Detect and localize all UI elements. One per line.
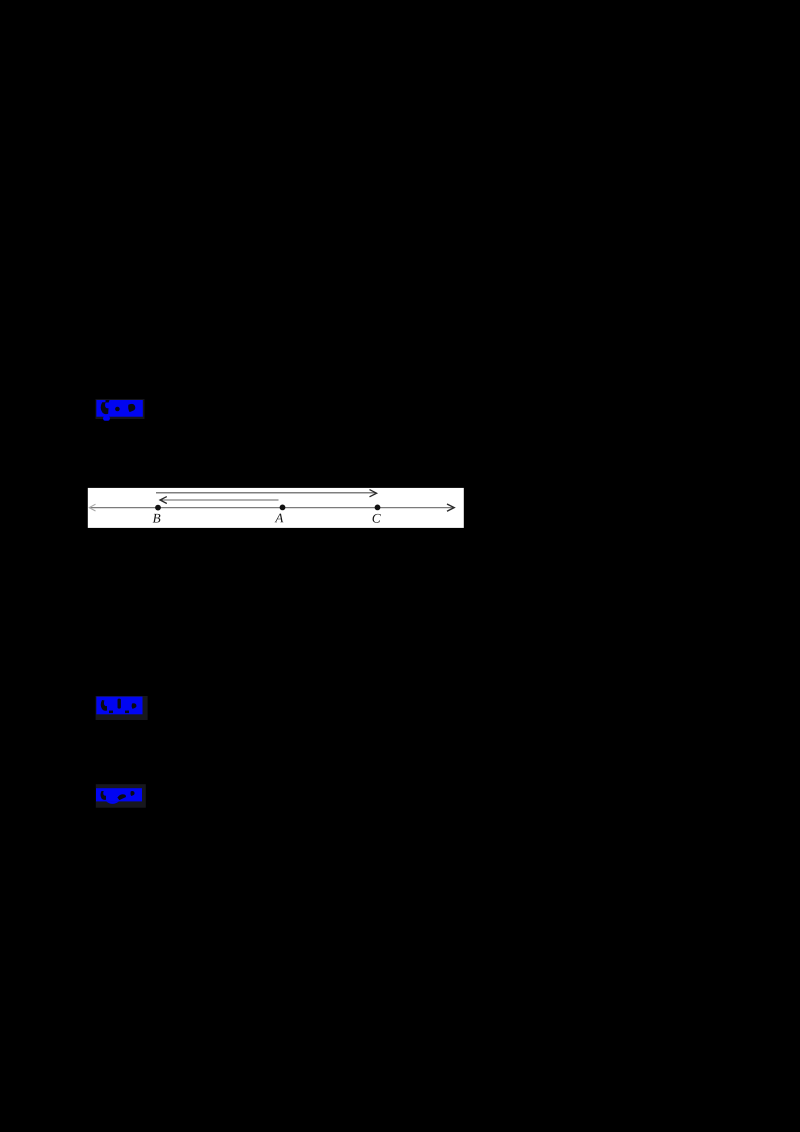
arrow A to B (pointing left) — [161, 499, 279, 501]
point B — [155, 505, 161, 511]
label A — [275, 514, 284, 523]
label L3 highlight (blue Arabic word) — [94, 783, 150, 811]
point A — [280, 505, 286, 511]
label B — [153, 514, 161, 523]
label L2 highlight (blue Arabic word) — [94, 694, 150, 724]
label C — [373, 514, 381, 523]
label L1 highlight (blue Arabic word) — [95, 398, 147, 426]
solution diagram panel (white box) — [87, 487, 465, 529]
arrow B to C (top, pointing right) — [156, 492, 375, 494]
number line — [89, 507, 454, 509]
right arrowhead of number line — [447, 504, 454, 511]
left arrowhead of number line — [89, 504, 95, 511]
point C — [375, 505, 381, 511]
